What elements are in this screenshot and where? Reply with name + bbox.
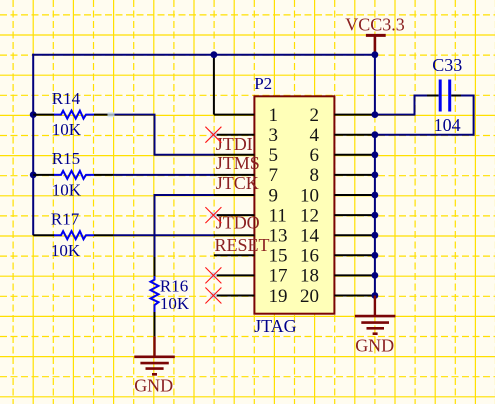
pin 8 (right stub) [334,174,375,176]
junction pin 20 [372,292,379,299]
junction pin 14 [372,232,379,239]
svg-text:JTDO: JTDO [216,213,260,233]
svg-text:R15: R15 [52,149,80,168]
wire C33 right lead [451,95,462,97]
junction VCC rail [372,51,379,58]
svg-text:20: 20 [300,286,319,307]
svg-text:10K: 10K [51,241,81,260]
junction pin 2 [372,111,379,118]
svg-text:2: 2 [310,105,320,126]
no-ERC mark pin 19 [205,288,221,304]
junction rail-R14 [30,111,37,118]
svg-text:18: 18 [300,266,319,287]
junction pin 12 [372,212,379,219]
pin 2 (right stub) [334,114,375,116]
grid marker R14 pin tip [108,112,115,117]
power VCC3.3 [345,15,405,55]
junction pin 6 [372,151,379,158]
ground GND (right, bus) [355,296,396,356]
junction pin 10 [372,192,379,199]
pin 3 (left stub) [214,134,255,136]
svg-text:P2: P2 [254,74,272,93]
junction pin1 riser [211,51,218,58]
svg-text:5: 5 [269,145,279,166]
no-ERC mark pin 3 [205,127,221,143]
svg-text:13: 13 [269,226,288,247]
svg-text:JTCK: JTCK [216,173,259,193]
svg-text:17: 17 [269,266,288,287]
svg-text:1: 1 [269,105,279,126]
pin 19 (left stub) [214,295,255,297]
junction pin 8 [372,172,379,179]
no-ERC mark pin 11 [205,207,221,223]
svg-text:GND: GND [134,376,173,396]
svg-text:VCC3.3: VCC3.3 [345,15,405,35]
wire VCC3.3 top rail [32,54,375,56]
svg-text:6: 6 [310,145,320,166]
svg-text:JTMS: JTMS [216,153,260,173]
pin 12 (right stub) [334,214,375,216]
wire JTCK (pin 9) to R16 [155,195,215,258]
connector P2 body [254,96,334,313]
pin 11 (left stub) [214,214,255,216]
svg-text:C33: C33 [432,55,462,75]
svg-text:R17: R17 [51,209,80,228]
pin 1 (left stub) [214,114,255,116]
pin 5 (left stub) [214,154,255,156]
svg-text:10K: 10K [52,120,82,139]
no-ERC mark pin 17 [205,267,221,283]
svg-text:9: 9 [269,185,279,206]
svg-text:8: 8 [310,165,320,186]
wire left pull-up rail [32,54,34,236]
svg-text:R14: R14 [52,89,81,108]
svg-text:10: 10 [300,185,319,206]
pin 9 (left stub) [214,194,255,196]
wire pin 1 to VCC rail [213,56,215,115]
resistor R16 [151,257,190,336]
svg-text:3: 3 [269,125,279,146]
wire VCC bus segment (VCC to pin 2) [374,55,376,115]
svg-text:10K: 10K [52,181,82,200]
pin 4 (right stub) [334,134,375,136]
junction pin 18 [372,272,379,279]
svg-text:16: 16 [300,246,319,267]
resistor R15 [33,149,113,199]
resistor R17 [33,209,113,259]
wire R14 to JTDI (pin 5) [114,115,215,155]
svg-text:11: 11 [269,205,287,226]
svg-text:RESET: RESET [215,235,270,255]
svg-text:GND: GND [355,336,394,356]
svg-text:4: 4 [310,125,320,146]
resistor R14 [33,89,113,139]
pin 13 (left stub) [214,234,255,236]
junction pin 4 [372,131,379,138]
svg-text:19: 19 [269,286,288,307]
pin 20 (right stub) [334,295,375,297]
svg-text:15: 15 [269,246,288,267]
pin 18 (right stub) [334,274,375,276]
pin 10 (right stub) [334,194,375,196]
svg-text:10K: 10K [160,294,190,313]
wire R15 to JTMS (pin 7) [114,174,215,176]
svg-text:12: 12 [300,205,319,226]
pin 16 (right stub) [334,254,375,256]
ground GND (left, R16) [134,336,175,395]
capacitor C33 [432,55,462,135]
pin 15 (left stub) [214,254,255,256]
pin 14 (right stub) [334,234,375,236]
wire R17 to JTDO (pin 13) [114,234,215,236]
pin 7 (left stub) [214,174,255,176]
svg-text:JTAG: JTAG [254,316,297,336]
junction pin 16 [372,252,379,259]
pin 17 (left stub) [214,274,255,276]
svg-text:JTDI: JTDI [216,134,253,154]
svg-text:R16: R16 [160,276,188,295]
wire GND bus segment (pins 4-20) [374,135,376,296]
pin 6 (right stub) [334,154,375,156]
svg-text:104: 104 [434,115,461,135]
svg-text:14: 14 [300,226,320,247]
svg-text:7: 7 [269,165,279,186]
junction rail-R15 [30,172,37,179]
wire C33 left lead [375,96,428,115]
